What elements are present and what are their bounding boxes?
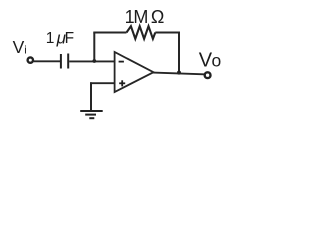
wire feedback up — [93, 33, 95, 62]
wire output — [153, 73, 204, 75]
svg-text:F: F — [65, 30, 74, 47]
svg-text:Vo: Vo — [199, 50, 221, 72]
junction output node — [177, 71, 181, 75]
wire non-inverting input — [90, 82, 115, 84]
op-amp inverting input marker — [119, 61, 124, 63]
svg-text:Vi: Vi — [13, 37, 27, 57]
junction node A — [92, 59, 96, 63]
wire resistor to corner — [155, 32, 179, 34]
output terminal Vo — [205, 72, 211, 78]
resistor R1 — [127, 26, 156, 39]
wire to ground — [90, 82, 92, 110]
ground — [80, 111, 103, 118]
op-amp U1 — [115, 52, 154, 92]
capacitor value label 1uF — [46, 28, 74, 47]
wire input terminal to capacitor — [34, 60, 60, 62]
capacitor C1 — [61, 54, 68, 69]
input terminal Vi — [28, 57, 33, 62]
svg-text:1M Ω: 1M Ω — [125, 7, 165, 27]
wire feedback down — [178, 32, 180, 73]
op-amp non-inverting input marker — [119, 80, 125, 86]
wire capacitor to inverting input — [69, 60, 114, 62]
wire feedback top — [93, 32, 126, 34]
svg-text:1: 1 — [46, 30, 55, 47]
